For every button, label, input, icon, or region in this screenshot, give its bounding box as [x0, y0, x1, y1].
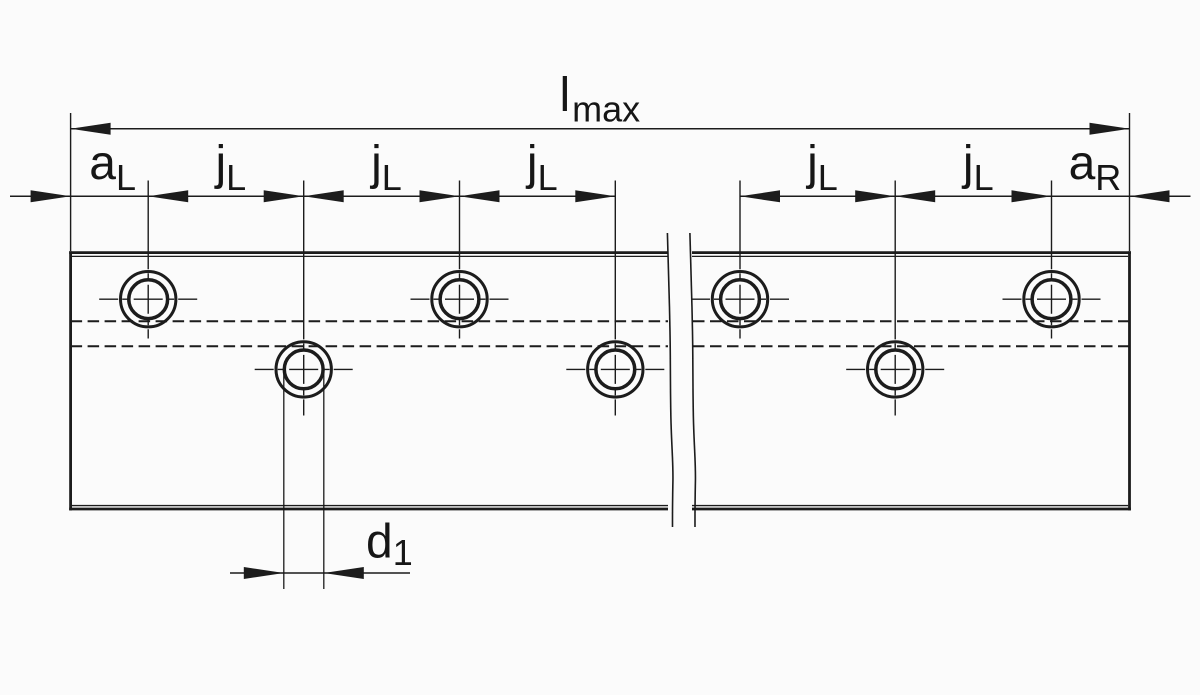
arrowhead at x=615 pointing right — [575, 190, 615, 202]
hole T1 outer circle — [121, 272, 176, 327]
rail bottom edge thick left segment — [69, 508, 668, 511]
hole B3 horizontal centerline — [846, 368, 944, 370]
dashed groove line lower left segment — [71, 345, 668, 347]
dimension line l_max — [71, 128, 1130, 130]
dashed groove line lower right segment — [692, 345, 1130, 347]
rail bottom inner thin line right segment — [692, 505, 1128, 507]
centerline hole T1 vertical — [147, 181, 149, 339]
dashed groove line upper left segment — [71, 320, 668, 322]
arrowhead at x=895 pointing right — [855, 190, 895, 202]
rail bottom edge thick right segment — [692, 508, 1131, 511]
hole T2 horizontal centerline — [411, 298, 509, 300]
centerline hole T2 vertical — [459, 181, 461, 339]
hole T3 horizontal centerline — [691, 298, 789, 300]
arrowhead at x=460 pointing right — [420, 190, 460, 202]
hole T4 outer circle — [1024, 272, 1079, 327]
hole T4 inner circle — [1032, 280, 1071, 319]
rail top inner thin line right segment — [692, 255, 1128, 257]
centerline hole B2 vertical — [614, 181, 616, 416]
dimension line row 2 left portion (a_L + 3x j_L) — [10, 195, 615, 197]
rail top edge thick left segment — [69, 251, 668, 254]
hole T2 inner circle — [440, 280, 479, 319]
hole B2 horizontal centerline — [566, 368, 664, 370]
arrowhead l_max left — [71, 123, 111, 135]
centerline hole B3 vertical — [894, 181, 896, 416]
arrowhead at x=1051 pointing right — [1012, 190, 1052, 202]
hole B1 inner circle — [284, 350, 323, 389]
break line left — [667, 233, 673, 527]
rail right edge — [1128, 251, 1131, 510]
d1 dimension line — [230, 572, 410, 574]
arrowhead d1 right pointing left — [324, 567, 364, 579]
hole T2 outer circle — [432, 272, 487, 327]
hole T3 inner circle — [721, 280, 760, 319]
arrowhead a_R outside-right pointing left — [1130, 190, 1170, 202]
d1 extension line right — [323, 370, 325, 589]
arrowhead at x=740 pointing left — [740, 190, 780, 202]
rail left edge — [69, 251, 72, 510]
hole B3 inner circle — [876, 350, 915, 389]
hole T3 outer circle — [712, 272, 767, 327]
hole B1 outer circle — [276, 342, 331, 397]
hole B2 outer circle — [588, 342, 643, 397]
hole B1 horizontal centerline — [255, 368, 353, 370]
break line right — [690, 233, 696, 527]
arrowhead at x=460 pointing left — [460, 190, 500, 202]
hole B2 inner circle — [596, 350, 635, 389]
hole T4 horizontal centerline — [1003, 298, 1101, 300]
arrowhead at x=304 pointing left — [304, 190, 344, 202]
hole B3 outer circle — [868, 342, 923, 397]
rail bottom inner thin line left segment — [72, 505, 668, 507]
arrowhead at x=148 pointing left — [148, 190, 188, 202]
extension line right (l_max / rail right) — [1129, 113, 1131, 251]
dimension line row 2 right portion (2x j_L + a_R) — [740, 195, 1191, 197]
hole T1 horizontal centerline — [99, 298, 197, 300]
centerline hole T4 vertical — [1051, 181, 1053, 339]
d1 extension line left — [283, 370, 285, 589]
arrowhead d1 left pointing right — [244, 567, 284, 579]
arrowhead l_max right — [1090, 123, 1130, 135]
arrowhead at x=895 pointing left — [895, 190, 935, 202]
arrowhead at x=304 pointing right — [264, 190, 304, 202]
rail top inner thin line left segment — [72, 255, 668, 257]
extension line left (l_max / rail left) — [70, 113, 72, 251]
arrowhead a_L outside-left pointing right — [31, 190, 71, 202]
centerline hole T3 vertical — [739, 181, 741, 339]
dashed groove line upper right segment — [692, 320, 1130, 322]
rail top edge thick right segment — [692, 251, 1131, 254]
centerline hole B1 vertical — [303, 181, 305, 416]
hole T1 inner circle — [129, 280, 168, 319]
